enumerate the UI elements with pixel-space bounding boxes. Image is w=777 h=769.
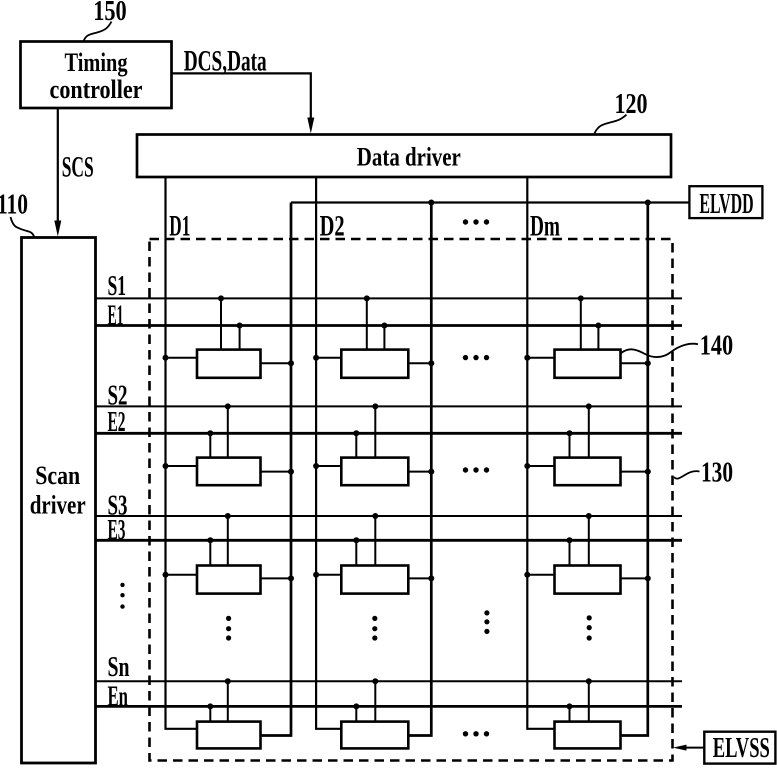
svg-text:E2: E2 — [108, 406, 126, 438]
scan line S1 — [96, 297, 683, 299]
emission line E1 — [96, 324, 683, 327]
wire: En stub into pixel 140 (row n, col m) — [569, 706, 571, 721]
svg-text:ELVDD: ELVDD — [699, 189, 753, 220]
pixel 140 (row 1, col 2) body — [341, 350, 408, 378]
wire: S1 stub into pixel 140 (row 1, col 1) — [220, 298, 222, 349]
junction on En at col 1 — [207, 703, 213, 709]
emission line E2 — [96, 432, 683, 435]
ellipsis: more pixels in row 2 — [463, 467, 489, 472]
svg-text:D1: D1 — [169, 210, 190, 243]
junction on E1 at col 1 — [237, 323, 243, 329]
junction on ELVDD power line col 1, row 2 — [288, 469, 294, 475]
data line Dm from data driver (bends into bottom pixel) — [527, 177, 554, 729]
junction on ELVDD power line col m, row 3 — [645, 575, 651, 581]
scan line S2 — [96, 405, 683, 407]
svg-text:130: 130 — [701, 457, 733, 489]
svg-text:140: 140 — [700, 329, 734, 361]
leader squiggle for 120 — [595, 115, 627, 134]
wire: pixel 140 (row 1, col m) to ELVDD power line — [621, 362, 648, 364]
pixel 140 (row 2, col 2) body — [341, 458, 408, 486]
svg-text:E3: E3 — [108, 514, 126, 546]
wire: En stub into pixel 140 (row n, col 2) — [355, 706, 357, 721]
junction on S3 at col 2 — [372, 513, 378, 519]
svg-text:Data driver: Data driver — [357, 141, 461, 171]
wire: E1 stub into pixel 140 (row 1, col 1) — [239, 326, 241, 350]
wire: E3 stub into pixel 140 (row 3, col 1) — [209, 540, 211, 565]
wire: data line D2 to pixel 140 (row 3, col 2) — [316, 574, 341, 576]
svg-text:Timing: Timing — [65, 47, 128, 77]
junction on S2 at col 2 — [372, 403, 378, 409]
junction on data line D2, row 1 — [313, 355, 319, 361]
junction on E1 at col 2 — [381, 323, 387, 329]
vertical ellipsis: more pixels col m — [587, 615, 592, 640]
wire: pixel 140 (row 2, col 2) to ELVDD power line — [408, 471, 431, 473]
junction on S2 at col m — [586, 403, 592, 409]
ELVDD power rail (horizontal) — [291, 201, 689, 203]
svg-text:Dm: Dm — [530, 210, 560, 243]
wire SCS from timing controller to scan driver — [57, 108, 59, 222]
ELVDD power line, column D2 (bends into bottom pixel) — [408, 203, 431, 736]
svg-text:controller: controller — [50, 74, 143, 104]
wire: pixel 140 (row 2, col m) to ELVDD power line — [621, 471, 648, 473]
junction on ELVDD power line col m, row 2 — [645, 469, 651, 475]
junction on ELVDD power line col 2, row 2 — [428, 469, 434, 475]
data line D1 from data driver (bends into bottom pixel) — [166, 177, 198, 729]
emission line En — [96, 705, 683, 708]
wire: data line D1 to pixel 140 (row 2, col 1) — [166, 465, 198, 467]
pixel 140 (row 3, col 2) body — [341, 566, 408, 594]
scan line S3 — [96, 515, 683, 517]
wire: data line Dm to pixel 140 (row 3, col m) — [527, 574, 554, 576]
junction on E3 at col 1 — [207, 537, 213, 543]
wire: pixel 140 (row 2, col 1) to ELVDD power line — [261, 471, 292, 473]
junction on En at col 2 — [353, 703, 359, 709]
pixel 140 (row 1, col 1) body — [197, 350, 261, 378]
wire: data line D1 to pixel 140 (row 1, col 1) — [166, 357, 198, 359]
wire: Sn stub into pixel 140 (row n, col m) — [588, 681, 590, 721]
wire: S2 stub into pixel 140 (row 2, col 1) — [227, 406, 229, 457]
junction on Sn at col 1 — [225, 678, 231, 684]
svg-text:DCS,Data: DCS,Data — [184, 44, 267, 77]
wire DCS/Data from timing controller to data driver — [172, 73, 311, 119]
data driver box (120) — [137, 135, 671, 178]
junction on S2 at col 1 — [225, 403, 231, 409]
junction on E2 at col m — [567, 430, 573, 436]
vertical ellipsis: more pixels col 1 — [226, 616, 231, 641]
wire: S2 stub into pixel 140 (row 2, col 2) — [374, 406, 376, 457]
wire: pixel 140 (row 3, col m) to ELVDD power line — [621, 577, 648, 579]
wire: data line D2 to pixel 140 (row 2, col 2) — [316, 465, 341, 467]
wire: E3 stub into pixel 140 (row 3, col m) — [569, 540, 571, 565]
junction: ELVDD rail / column Dm power line — [645, 200, 651, 206]
junction on data line Dm, row 2 — [524, 463, 530, 469]
leader squiggle for 150 — [84, 22, 112, 42]
leader squiggle for 110 — [11, 217, 35, 237]
junction on En at col m — [567, 703, 573, 709]
wire: Sn stub into pixel 140 (row n, col 1) — [227, 681, 229, 721]
scan line Sn — [96, 680, 683, 682]
pixel 140 (row 1, col m) body — [555, 350, 621, 378]
arrowhead into data driver — [307, 118, 314, 134]
junction on ELVDD power line col 2, row 3 — [428, 575, 434, 581]
junction on Sn at col m — [586, 678, 592, 684]
wire: data line D1 to pixel 140 (row 3, col 1) — [166, 574, 198, 576]
pixel 140 (row n, col 2) body — [341, 722, 408, 749]
wire: En stub into pixel 140 (row n, col 1) — [209, 706, 211, 721]
junction on E1 at col m — [595, 323, 601, 329]
pixel 140 (row n, col m) body — [555, 722, 621, 749]
wire: S3 stub into pixel 140 (row 3, col m) — [588, 516, 590, 566]
wire from ELVSS box — [685, 747, 704, 749]
junction on S1 at col 1 — [218, 295, 224, 301]
wire: data line Dm to pixel 140 (row 2, col m) — [527, 465, 554, 467]
junction on S3 at col m — [586, 513, 592, 519]
pixel 140 (row 2, col m) body — [555, 458, 621, 486]
svg-text:En: En — [108, 680, 129, 712]
leader squiggle for 140 — [621, 344, 698, 357]
wire: S2 stub into pixel 140 (row 2, col m) — [588, 406, 590, 457]
wire: S1 stub into pixel 140 (row 1, col 2) — [366, 298, 368, 349]
wire: S1 stub into pixel 140 (row 1, col m) — [580, 298, 582, 349]
ELVDD power line, column Dm (bends into bottom pixel) — [621, 203, 648, 736]
junction on data line D2, row 3 — [313, 572, 319, 578]
junction on E3 at col m — [567, 537, 573, 543]
wire: data line D2 to pixel 140 (row 1, col 2) — [316, 357, 341, 359]
wire: S3 stub into pixel 140 (row 3, col 1) — [227, 516, 229, 566]
scan driver box (110) — [22, 238, 96, 764]
svg-text:driver: driver — [30, 490, 86, 520]
svg-text:120: 120 — [615, 88, 648, 120]
wire: E2 stub into pixel 140 (row 2, col 1) — [209, 433, 211, 457]
junction on E3 at col 2 — [353, 537, 359, 543]
ELVDD power line, column D1 (bends into bottom pixel) — [261, 203, 292, 736]
pixel 140 (row 3, col 1) body — [197, 566, 261, 594]
junction on data line D2, row 2 — [313, 463, 319, 469]
junction on S1 at col m — [578, 295, 584, 301]
wire: E2 stub into pixel 140 (row 2, col 2) — [355, 433, 357, 457]
junction on data line D1, row 3 — [163, 572, 169, 578]
svg-text:S1: S1 — [108, 270, 127, 302]
leader squiggle for 130 — [674, 471, 700, 479]
svg-text:SCS: SCS — [62, 150, 94, 183]
vertical ellipsis: more pixels col 2 — [372, 616, 377, 641]
ELVDD terminal box — [689, 186, 762, 218]
junction on ELVDD power line col 1, row 1 — [288, 360, 294, 366]
wire: E3 stub into pixel 140 (row 3, col 2) — [355, 540, 357, 565]
junction on E2 at col 2 — [353, 430, 359, 436]
arrowhead: ELVSS into pixel portion — [673, 745, 687, 751]
ELVSS terminal box — [704, 732, 775, 764]
svg-text:Sn: Sn — [108, 651, 130, 683]
wire: E1 stub into pixel 140 (row 1, col 2) — [383, 326, 385, 350]
wire: pixel 140 (row 1, col 2) to ELVDD power line — [408, 362, 431, 364]
junction on Sn at col 2 — [372, 678, 378, 684]
ellipsis between column labels D2 and Dm — [463, 219, 489, 224]
svg-text:Scan: Scan — [35, 460, 80, 490]
svg-text:D2: D2 — [320, 210, 345, 243]
junction on ELVDD power line col m, row 1 — [645, 360, 651, 366]
vertical ellipsis: more pixels (middle) — [484, 610, 489, 634]
junction on S3 at col 1 — [225, 513, 231, 519]
wire: pixel 140 (row 1, col 1) to ELVDD power line — [261, 362, 292, 364]
wire: E2 stub into pixel 140 (row 2, col m) — [569, 433, 571, 457]
data line D2 from data driver (bends into bottom pixel) — [316, 177, 341, 729]
wire: pixel 140 (row 3, col 2) to ELVDD power line — [408, 577, 431, 579]
junction on ELVDD power line col 2, row 1 — [428, 360, 434, 366]
pixel 140 (row 2, col 1) body — [197, 458, 261, 486]
wire: E1 stub into pixel 140 (row 1, col m) — [597, 326, 599, 350]
junction on data line D1, row 1 — [163, 355, 169, 361]
junction on S1 at col 2 — [364, 295, 370, 301]
ellipsis: more pixels in row 1 — [463, 355, 489, 360]
svg-text:ELVSS: ELVSS — [713, 733, 770, 764]
vertical ellipsis: more scan/emission lines — [120, 583, 124, 609]
junction on E2 at col 1 — [207, 430, 213, 436]
junction on ELVDD power line col 1, row 3 — [288, 575, 294, 581]
ellipsis: more pixels in row n — [463, 731, 489, 736]
svg-text:110: 110 — [0, 188, 28, 220]
wire: pixel 140 (row 3, col 1) to ELVDD power line — [261, 577, 292, 579]
pixel 140 (row n, col 1) body — [197, 722, 261, 749]
pixel portion dashed boundary (130) — [150, 239, 673, 761]
wire: data line Dm to pixel 140 (row 1, col m) — [527, 357, 554, 359]
emission line E3 — [96, 539, 683, 542]
junction on data line Dm, row 3 — [524, 572, 530, 578]
junction: ELVDD rail / column D2 power line — [428, 200, 434, 206]
arrowhead into scan driver — [54, 221, 61, 237]
wire: Sn stub into pixel 140 (row n, col 2) — [374, 681, 376, 721]
wire: S3 stub into pixel 140 (row 3, col 2) — [374, 516, 376, 566]
timing controller box (150) — [21, 42, 172, 109]
pixel 140 (row 3, col m) body — [555, 566, 621, 594]
svg-text:E1: E1 — [108, 300, 124, 332]
junction on data line Dm, row 1 — [524, 355, 530, 361]
junction on data line D1, row 2 — [163, 463, 169, 469]
